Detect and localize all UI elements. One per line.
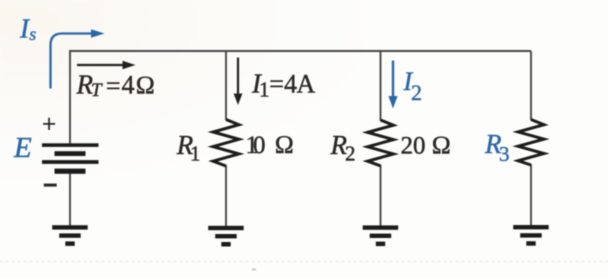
svg-text:+: + bbox=[42, 112, 56, 139]
svg-text:3: 3 bbox=[499, 142, 510, 166]
svg-text:2: 2 bbox=[345, 142, 356, 166]
svg-text:2: 2 bbox=[411, 80, 422, 105]
svg-text:T: T bbox=[91, 80, 103, 101]
svg-text:1: 1 bbox=[190, 142, 201, 166]
svg-text:1: 1 bbox=[259, 78, 270, 102]
svg-text:20: 20 bbox=[401, 132, 426, 159]
svg-text:4: 4 bbox=[122, 71, 135, 100]
svg-text:4: 4 bbox=[284, 69, 297, 98]
svg-text:Ω: Ω bbox=[432, 130, 452, 159]
svg-text:=: = bbox=[269, 69, 284, 98]
svg-text:Ω: Ω bbox=[136, 71, 156, 100]
svg-text:A: A bbox=[297, 69, 316, 98]
svg-text:s: s bbox=[29, 24, 36, 44]
svg-text:Ω: Ω bbox=[275, 130, 295, 159]
svg-text:=: = bbox=[106, 72, 121, 101]
svg-text:E: E bbox=[13, 132, 32, 164]
svg-text:0: 0 bbox=[253, 132, 266, 159]
